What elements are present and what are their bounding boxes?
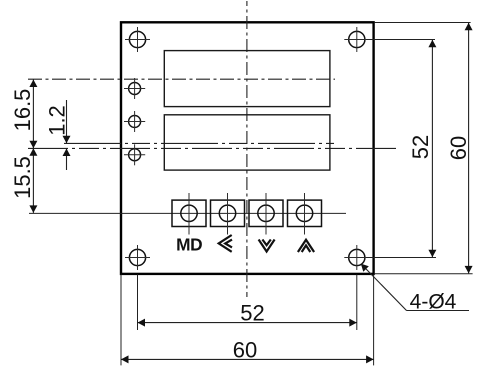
bottom dim 52 [138,301,357,327]
bottom dim 52 extension right [356,275,358,331]
right dim 52 extension bottom [366,257,436,259]
svg-text:15.5: 15.5 [10,156,35,199]
led hole 2 [124,111,145,132]
corner hole bottom-right [344,245,369,270]
bottom dim 60 extension right [373,275,375,366]
right dim 52 extension top [366,39,435,41]
right dim 60 extension bottom [375,273,473,275]
button 3 [249,193,283,235]
button 4 [288,193,322,235]
label down double chevron [259,240,275,252]
bottom dim 60 extension left [120,275,122,366]
bottom dim 60 [121,338,374,364]
bottom dim 52 extension left [137,275,139,331]
rect1 centerline [28,78,335,80]
button 2 [211,193,245,235]
panel outline [121,22,374,274]
display window rect2 [164,115,330,170]
label MD [176,235,202,255]
right dim 60 extension top [375,22,471,24]
svg-text:16.5: 16.5 [10,89,35,132]
rect2 centerline [64,142,334,144]
svg-text:52: 52 [408,135,433,159]
vertical centerline [246,1,248,297]
button row centerline [29,212,346,214]
display window rect1 [164,51,330,107]
corner hole bottom-left [125,245,150,270]
dim 1.2 [45,100,71,170]
led hole 1 [124,78,145,99]
svg-text:52: 52 [240,301,264,326]
led hole 3 [124,144,145,165]
label up double chevron [298,240,314,252]
leader 4-O4 [361,264,469,314]
svg-text:4-Ø4: 4-Ø4 [410,291,457,314]
corner hole top-right [344,27,369,52]
corner hole top-left [125,27,150,52]
right dim 52 [408,40,436,257]
label left double chevron [219,235,232,252]
svg-text:60: 60 [446,136,471,160]
svg-text:1.2: 1.2 [45,105,70,136]
svg-text:60: 60 [233,338,257,363]
right dim 60 [446,23,473,274]
svg-text:MD: MD [176,235,202,255]
dim 16.5 [10,80,37,149]
panel horizontal centerline [28,147,396,149]
button 1 [172,193,206,235]
dim 15.5 [10,148,37,213]
